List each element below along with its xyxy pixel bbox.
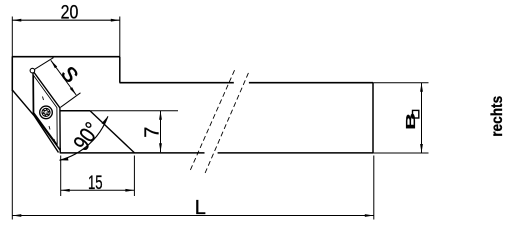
shank right edge xyxy=(372,83,374,153)
screw outer circle xyxy=(40,106,53,119)
arrow arc bottom end xyxy=(59,158,68,161)
arrow B top xyxy=(420,83,423,92)
dimension 20 line xyxy=(12,19,120,21)
B dim extension line bottom xyxy=(373,152,429,154)
arrow arc top end xyxy=(102,116,108,124)
s dimension line xyxy=(51,60,76,95)
nose top line xyxy=(60,110,90,112)
label B square symbol xyxy=(413,110,419,118)
B dimension line xyxy=(421,83,423,154)
arrow B bottom xyxy=(420,144,423,153)
L dimension line xyxy=(12,215,374,217)
insert inner outline xyxy=(34,76,58,145)
break line 1 (dashed) xyxy=(190,70,234,170)
svg-text:B: B xyxy=(403,113,418,130)
tip vertical below insert xyxy=(59,148,61,153)
B dim extension line top xyxy=(373,82,429,84)
wire: extension line right of head step (x=119.5) xyxy=(119,17,121,57)
arrow s top xyxy=(51,60,57,68)
insert land mark lower xyxy=(49,126,50,130)
tool head front diagonal (pocket edge) xyxy=(12,90,58,153)
tool head top edge xyxy=(12,56,120,58)
arrow L left xyxy=(12,214,21,217)
svg-text:s: s xyxy=(55,58,87,88)
nose chamfer 45deg xyxy=(90,111,135,153)
head step vertical xyxy=(119,57,121,83)
svg-text:90°: 90° xyxy=(68,118,105,155)
svg-text:15: 15 xyxy=(88,172,103,194)
arrow 20 right xyxy=(111,19,120,22)
svg-text:L: L xyxy=(195,197,206,219)
wire: extension line left (x=12, dim 20 top to L dim bottom) xyxy=(11,17,13,220)
svg-text:20: 20 xyxy=(61,2,79,24)
7 dim extension line xyxy=(90,110,178,112)
15 dimension line xyxy=(61,189,135,191)
break line 2 (dashed) xyxy=(205,71,249,173)
arrow 15 right xyxy=(125,189,134,192)
s dim extension line from corner circle xyxy=(35,58,54,70)
arrow 7 top xyxy=(159,111,162,120)
s dim extension line from insert right corner xyxy=(61,93,81,108)
insert outer outline xyxy=(33,71,60,150)
screw torx star xyxy=(43,109,50,116)
svg-text:7: 7 xyxy=(141,127,163,138)
insert corner circle xyxy=(30,68,35,73)
arrow 20 left xyxy=(12,19,21,22)
tool head left edge xyxy=(11,57,13,92)
arrow s bottom xyxy=(70,87,76,95)
arrow L right xyxy=(365,214,374,217)
90deg arc xyxy=(60,116,108,160)
shank top edge (with break gap) xyxy=(120,82,234,84)
insert land mark upper xyxy=(43,97,44,101)
15 dim extension line left xyxy=(60,156,62,197)
screw inner circle xyxy=(42,108,50,116)
7 dimension line xyxy=(160,111,162,153)
L dim extension line right xyxy=(373,156,375,220)
insert land mark bottom xyxy=(54,139,55,143)
15 dim extension line right xyxy=(133,156,135,197)
svg-text:rechts: rechts xyxy=(489,96,506,137)
arrow 15 left xyxy=(61,189,70,192)
shank bottom edge (with break gap) xyxy=(60,152,205,154)
arrow 7 bottom xyxy=(159,143,162,152)
